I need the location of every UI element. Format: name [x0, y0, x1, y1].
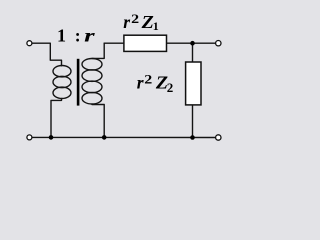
svg-text::: : [75, 26, 81, 46]
svg-text:r: r [137, 73, 144, 93]
svg-text:2: 2 [131, 11, 139, 26]
svg-text:2: 2 [144, 71, 152, 86]
svg-text:1: 1 [57, 26, 66, 46]
svg-text:1: 1 [153, 19, 159, 33]
svg-text:r: r [84, 26, 95, 46]
svg-text:r: r [123, 12, 130, 32]
svg-text:2: 2 [167, 80, 174, 95]
